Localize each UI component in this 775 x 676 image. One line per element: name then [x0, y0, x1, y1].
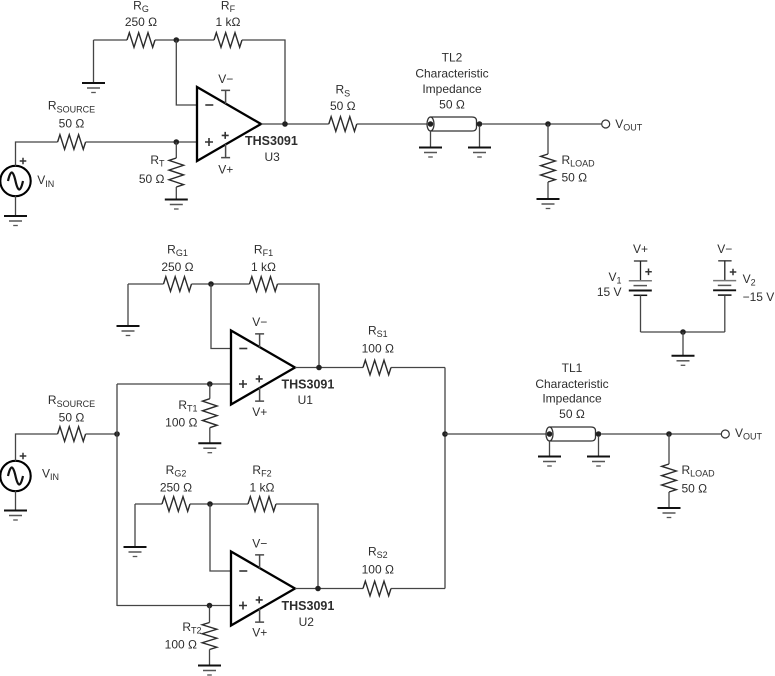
- wire TL2 left ground drop: [430, 131, 432, 148]
- node RT2 tap: [207, 603, 213, 609]
- wire RLOAD top (bottom): [668, 434, 670, 464]
- resistor RT1: [203, 399, 218, 428]
- wire source to ground (top): [15, 196, 17, 216]
- wire RF1 to U1 output node: [278, 284, 320, 368]
- resistor RF (top): [214, 33, 242, 48]
- voltage source VIN (bottom circuit): [0, 453, 30, 491]
- wire RLOAD bottom (top): [547, 182, 549, 199]
- resistor RG (top): [127, 33, 155, 48]
- wire bus to TL1: [445, 433, 546, 435]
- node feedback junction (top): [174, 37, 180, 43]
- wire U3 output (top): [261, 123, 329, 125]
- wire ground to RG2: [135, 503, 162, 505]
- svg-text:250 Ω: 250 Ω: [161, 260, 193, 274]
- wire TL1 left ground drop: [549, 441, 551, 457]
- svg-text:100 Ω: 100 Ω: [362, 563, 394, 577]
- resistor RS2: [363, 581, 391, 596]
- wire feedback to inverting input (top): [176, 40, 197, 105]
- svg-text:U2: U2: [299, 615, 315, 629]
- ground RT1: [198, 443, 221, 453]
- svg-text:V−: V−: [218, 72, 233, 86]
- wire RG2 left to ground: [134, 504, 136, 547]
- node RT1 tap: [207, 381, 213, 387]
- svg-text:V−: V−: [252, 315, 267, 329]
- battery V2: [713, 261, 736, 295]
- wire RT2 bottom: [209, 650, 211, 666]
- wire RLOAD bottom (bottom): [668, 492, 670, 508]
- svg-text:15 V: 15 V: [597, 285, 622, 299]
- svg-text:100 Ω: 100 Ω: [165, 638, 197, 652]
- wire ground to RG (top): [94, 39, 128, 41]
- ground RT (top): [165, 200, 188, 210]
- resistor RLOAD (top): [541, 154, 556, 182]
- svg-text:V+: V+: [633, 242, 648, 256]
- wire TL1 to VOUT (bottom): [601, 433, 721, 435]
- resistor RLOAD (bottom): [662, 464, 677, 492]
- node U2 output feedback: [315, 586, 321, 592]
- wire feedback to U1 inverting input: [211, 284, 231, 349]
- svg-text:U1: U1: [298, 393, 314, 407]
- wire RF to output node (top): [242, 40, 285, 124]
- node RLOAD tap (top): [545, 121, 551, 127]
- node U1 output feedback: [316, 365, 322, 371]
- svg-text:Characteristic: Characteristic: [415, 67, 488, 81]
- wire TL1 right ground drop: [598, 436, 600, 457]
- wire RSOURCE to opamp + input (top): [86, 141, 197, 143]
- wire RG left to ground (top): [93, 40, 95, 83]
- svg-text:TL2: TL2: [442, 51, 463, 65]
- wire RG1 left to ground: [127, 284, 129, 326]
- wire RF2 to U2 output node: [276, 504, 318, 589]
- wire RT1 top: [209, 384, 211, 399]
- op-amp U2: [231, 552, 295, 626]
- node input bus junction: [114, 431, 120, 437]
- wire supply ground drop: [682, 332, 684, 356]
- ground RLOAD (top): [537, 199, 560, 209]
- svg-text:TL1: TL1: [562, 361, 583, 375]
- svg-text:1 kΩ: 1 kΩ: [216, 15, 241, 29]
- ground RG1: [117, 326, 140, 336]
- svg-text:1 kΩ: 1 kΩ: [251, 260, 276, 274]
- resistor RS1: [363, 360, 391, 375]
- plus sign V2: [730, 269, 737, 276]
- ground TL1 right: [587, 457, 610, 467]
- svg-text:V+: V+: [252, 626, 267, 640]
- node supply ground junction: [680, 329, 686, 335]
- wire RG to RF (top): [155, 39, 214, 41]
- terminal VOUT (top): [602, 120, 610, 128]
- wire ground to RG1: [128, 283, 164, 285]
- wire RG1 to RF1: [192, 283, 250, 285]
- svg-text:50 Ω: 50 Ω: [682, 482, 708, 496]
- svg-text:100 Ω: 100 Ω: [165, 416, 197, 430]
- resistor RT2: [202, 623, 217, 650]
- resistor RF1: [250, 277, 278, 292]
- plus sign V1: [645, 269, 652, 276]
- wire RT2 top: [209, 606, 211, 623]
- svg-text:50 Ω: 50 Ω: [139, 172, 165, 186]
- ground RG (top): [82, 83, 105, 93]
- op-amp U3: [197, 87, 261, 161]
- svg-text:THS3091: THS3091: [282, 599, 335, 613]
- resistor RT (top): [169, 158, 184, 187]
- resistor RF2: [248, 497, 276, 512]
- wire source to ground (bottom): [15, 491, 17, 511]
- svg-text:V−: V−: [252, 537, 267, 551]
- wire TL2 to VOUT (top): [482, 123, 602, 125]
- ground RT2: [198, 666, 221, 676]
- svg-text:U3: U3: [265, 150, 281, 164]
- svg-text:50 Ω: 50 Ω: [562, 171, 588, 185]
- op-amp U1: [231, 331, 295, 405]
- svg-text:250 Ω: 250 Ω: [160, 481, 192, 495]
- svg-text:1 kΩ: 1 kΩ: [250, 481, 275, 495]
- svg-text:THS3091: THS3091: [282, 377, 335, 391]
- wire TL2 right ground drop: [479, 126, 481, 148]
- resistor RSOURCE (top): [58, 135, 86, 150]
- wire U1 output: [295, 367, 363, 369]
- svg-text:Impedance: Impedance: [422, 82, 482, 96]
- wire U2 output: [295, 588, 363, 590]
- svg-text:50 Ω: 50 Ω: [59, 411, 85, 425]
- wire source-top to input rail (bottom): [16, 434, 58, 461]
- node RT tap (top): [174, 139, 180, 145]
- wire bus to U2 + input: [117, 605, 231, 607]
- node right bus junction: [442, 431, 448, 437]
- resistor RS (top): [329, 117, 357, 132]
- transmission line TL2: [427, 117, 482, 131]
- wire RLOAD top (top): [547, 124, 549, 154]
- svg-text:THS3091: THS3091: [245, 134, 298, 148]
- wire V2 bottom: [724, 295, 726, 332]
- ground TL1 left: [538, 457, 561, 467]
- ground RLOAD (bottom): [658, 508, 681, 518]
- node RLOAD tap (bottom): [666, 431, 672, 437]
- ground TL2 right: [468, 148, 491, 158]
- resistor RG1: [164, 277, 192, 292]
- resistor RG2: [162, 497, 190, 512]
- wire bus to U1 + input: [117, 383, 231, 385]
- svg-text:V+: V+: [218, 163, 233, 177]
- ground source (bottom): [4, 511, 27, 521]
- svg-text:V+: V+: [252, 405, 267, 419]
- wire supply common rail: [641, 331, 725, 333]
- resistor RSOURCE (bottom): [58, 427, 86, 442]
- terminal VOUT (bottom): [721, 430, 729, 438]
- svg-text:Impedance: Impedance: [542, 392, 602, 406]
- svg-text:50 Ω: 50 Ω: [559, 407, 585, 421]
- wire RS2 to right bus: [391, 588, 445, 590]
- wire RT top (top): [175, 142, 177, 158]
- svg-text:50 Ω: 50 Ω: [439, 98, 465, 112]
- battery V1: [629, 261, 652, 295]
- wire RT1 bottom: [209, 428, 211, 444]
- svg-text:50 Ω: 50 Ω: [59, 117, 85, 131]
- wire RT bottom (top): [175, 187, 177, 200]
- wire RSOURCE to bus (bottom): [86, 433, 117, 435]
- wire feedback to U2 inverting input: [210, 504, 231, 571]
- wire V1 bottom: [640, 295, 642, 332]
- transmission line TL1: [546, 427, 601, 441]
- svg-text:250 Ω: 250 Ω: [125, 15, 157, 29]
- wire RS to TL2: [357, 123, 427, 125]
- svg-text:100 Ω: 100 Ω: [362, 342, 394, 356]
- voltage source VIN (top circuit): [0, 158, 30, 197]
- ground supplies: [672, 356, 695, 366]
- node feedback junction U1: [208, 281, 214, 287]
- svg-text:Characteristic: Characteristic: [535, 377, 608, 391]
- ground RG2: [124, 547, 147, 557]
- node U3 output feedback (top): [282, 121, 288, 127]
- ground source (top): [4, 216, 27, 226]
- wire RG2 to RF2: [190, 503, 248, 505]
- wire input bus vertical: [116, 384, 118, 606]
- ground TL2 left: [419, 148, 442, 158]
- svg-text:50 Ω: 50 Ω: [330, 99, 356, 113]
- svg-text:−15 V: −15 V: [743, 290, 775, 304]
- wire RS1 to right bus: [391, 367, 445, 369]
- wire source-top to input rail (top): [16, 142, 58, 166]
- node feedback junction U2: [207, 501, 213, 507]
- wire right bus vertical: [444, 368, 446, 589]
- svg-text:V−: V−: [717, 242, 732, 256]
